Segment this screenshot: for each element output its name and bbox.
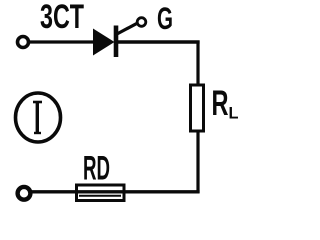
current source I (circle) [16, 93, 61, 142]
svg-text:L: L [229, 104, 239, 123]
svg-text:3CT: 3CT [40, 0, 84, 36]
wire (RL down to bottom-right corner) [196, 131, 199, 193]
terminal G (gate) [137, 18, 146, 27]
wire (top-right corner down to RL) [196, 41, 199, 87]
svg-text:G: G [157, 0, 173, 36]
wire (gate lead) [116, 23, 138, 35]
thyristor 3CT (anode triangle) [93, 29, 115, 56]
resistor RL [191, 85, 204, 131]
svg-text:RD: RD [83, 150, 110, 188]
label RL [212, 84, 239, 123]
svg-text:R: R [212, 84, 229, 123]
wire (bottom, right corner to bottom-left terminal) [30, 190, 200, 193]
wire (cathode to top-right corner) [118, 40, 200, 43]
terminal (bottom-left input) [18, 187, 31, 200]
current source I (letter I mark) [33, 101, 42, 134]
thyristor 3CT (cathode bar) [114, 26, 119, 58]
wire (anode terminal to thyristor) [30, 40, 96, 43]
terminal (top-left anode input) [18, 37, 29, 48]
resistor RD [77, 185, 125, 201]
